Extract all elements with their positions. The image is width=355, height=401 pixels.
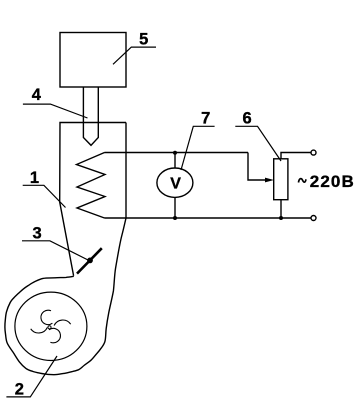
rheostat top lead to terminal [281, 153, 311, 159]
fan wheel 2 (inner circle) [15, 292, 87, 360]
svg-text:1: 1 [30, 169, 39, 187]
terminal lower [311, 216, 316, 221]
voltmeter V1 [157, 168, 193, 197]
rheostat 6 [274, 159, 288, 200]
body right edge and fan scroll [5, 123, 126, 375]
shaft 4 [83, 87, 98, 145]
leader 1 [23, 185, 66, 207]
wire: bottom (zigzag to rheostat bottom node) [105, 217, 282, 219]
impeller blade bottom [49, 328, 60, 342]
heater housing 1 (body outline, duct left edge) [60, 123, 126, 276]
tilde of mains label [299, 179, 307, 183]
svg-text:6: 6 [243, 110, 252, 128]
voltmeter bottom lead [174, 197, 176, 218]
node on top wire [173, 151, 177, 155]
leader 4 [23, 104, 88, 118]
wire: top (zigzag to corner) [105, 152, 249, 154]
node on bottom wire [173, 216, 177, 220]
leader 6 [235, 126, 281, 161]
terminal upper [311, 150, 316, 155]
impeller blades [31, 310, 71, 343]
leader 2 [6, 356, 57, 397]
damper 3 [77, 248, 102, 273]
svg-text:7: 7 [201, 110, 210, 128]
svg-text:2: 2 [15, 381, 24, 399]
wire: down from corner to wiper level [248, 153, 267, 181]
leader 5 [113, 47, 156, 64]
svg-text:4: 4 [32, 86, 42, 104]
leader 3 [22, 241, 88, 260]
leader 7 [181, 126, 215, 170]
wiper arrowhead [265, 178, 274, 183]
node at rheostat bottom [279, 216, 283, 220]
svg-text:V: V [170, 176, 181, 193]
heating element zigzag [77, 153, 106, 219]
motor box 5 [60, 33, 126, 88]
svg-text:3: 3 [33, 225, 42, 243]
voltmeter top lead [174, 153, 176, 169]
impeller hub [48, 326, 51, 329]
impeller blade right [54, 320, 71, 325]
impeller blade top [41, 310, 52, 324]
damper pivot dot [87, 258, 93, 264]
wire to lower terminal [281, 217, 311, 219]
impeller blade left [31, 328, 48, 333]
rheostat bottom lead [280, 200, 282, 218]
svg-text:220В: 220В [310, 172, 355, 191]
svg-text:5: 5 [139, 30, 148, 48]
